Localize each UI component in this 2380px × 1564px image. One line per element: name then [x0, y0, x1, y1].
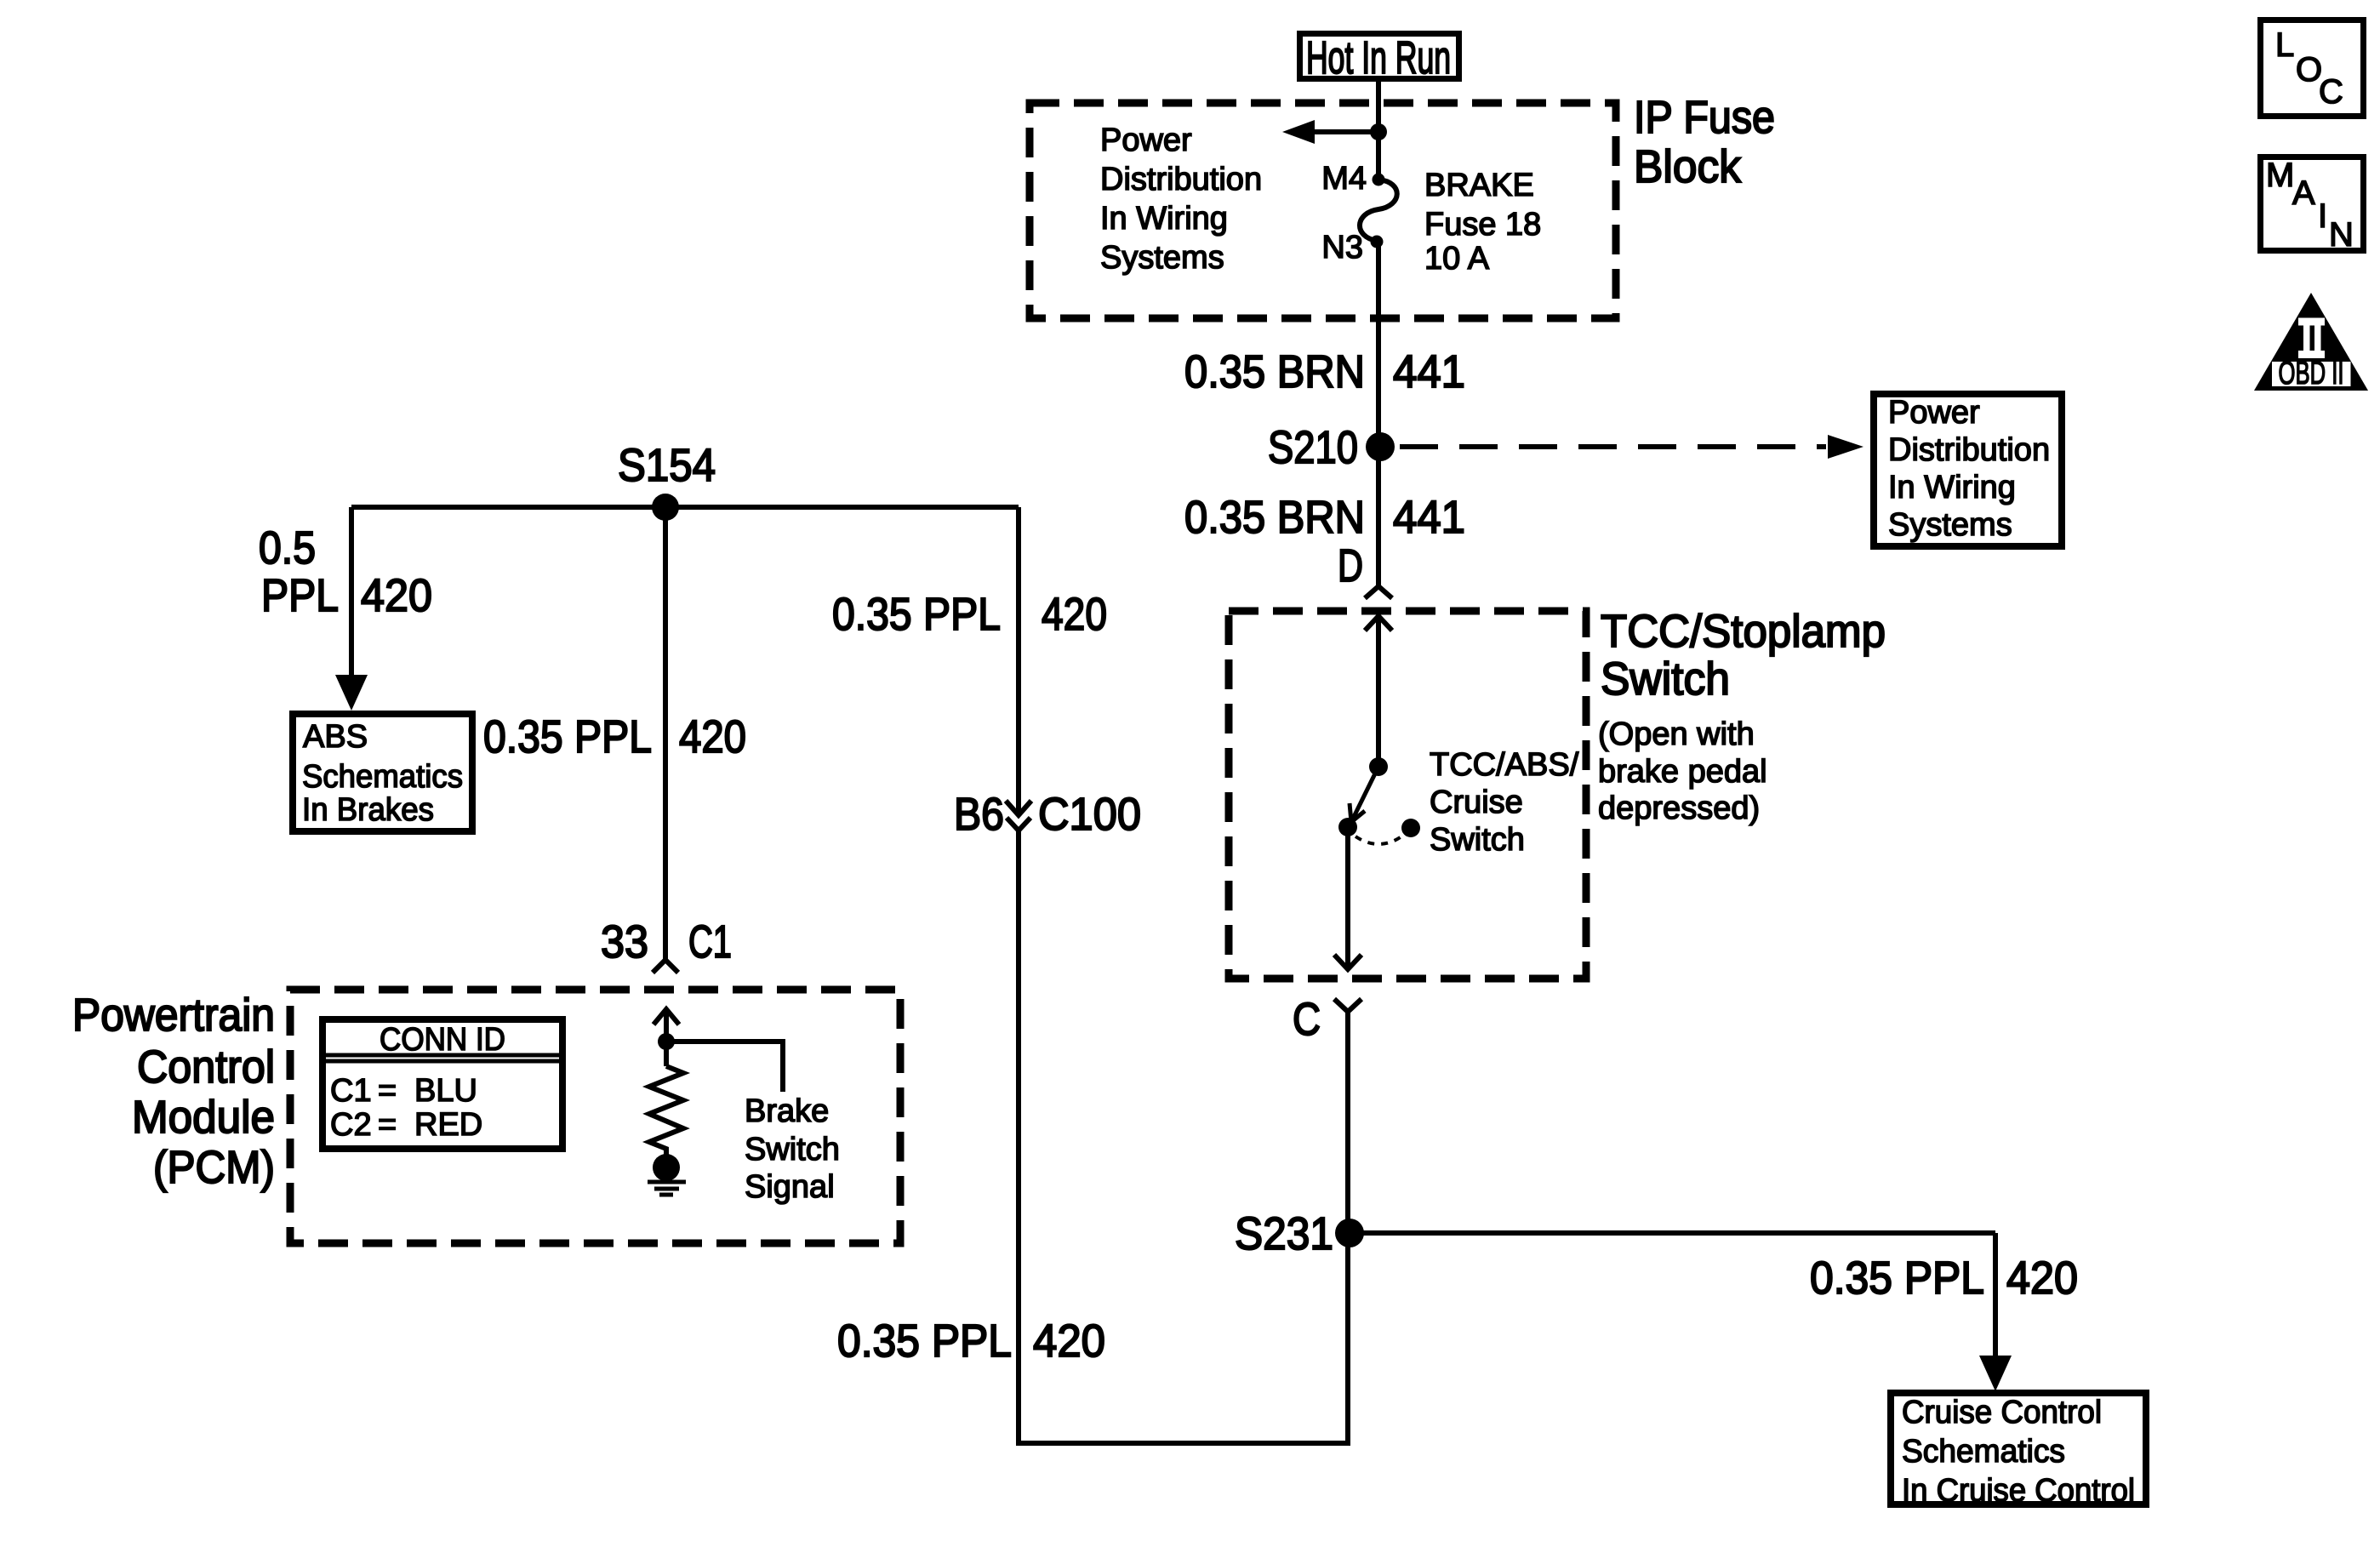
svg-text:420: 420 [2006, 1253, 2078, 1304]
svg-text:In Wiring: In Wiring [1888, 470, 2016, 505]
svg-text:420: 420 [361, 570, 432, 621]
svg-text:CONN ID: CONN ID [380, 1022, 505, 1058]
svg-text:=: = [378, 1073, 397, 1109]
svg-text:depressed): depressed) [1598, 791, 1760, 826]
svg-text:BRAKE: BRAKE [1424, 168, 1534, 203]
svg-text:Module: Module [132, 1092, 275, 1143]
svg-text:Signal: Signal [745, 1169, 835, 1205]
svg-text:N: N [2329, 216, 2354, 254]
svg-text:33: 33 [601, 916, 648, 968]
svg-text:C: C [2319, 73, 2343, 111]
svg-text:C100: C100 [1038, 789, 1141, 840]
svg-text:420: 420 [1033, 1316, 1105, 1367]
svg-text:In Wiring: In Wiring [1100, 201, 1228, 237]
svg-text:In Brakes: In Brakes [302, 792, 434, 828]
svg-text:10 A: 10 A [1424, 241, 1490, 277]
svg-text:Distribution: Distribution [1888, 432, 2050, 468]
svg-text:Schematics: Schematics [1902, 1434, 2065, 1470]
svg-text:C: C [1293, 994, 1321, 1045]
svg-text:0.35 PPL: 0.35 PPL [1810, 1253, 1984, 1304]
svg-text:=: = [378, 1107, 397, 1143]
svg-text:Schematics: Schematics [302, 759, 463, 795]
svg-text:L: L [2275, 26, 2294, 64]
svg-text:S210: S210 [1268, 422, 1358, 473]
svg-text:N3: N3 [1321, 230, 1363, 265]
svg-text:B6: B6 [954, 789, 1004, 840]
svg-text:IP Fuse: IP Fuse [1634, 92, 1775, 143]
svg-text:Powertrain: Powertrain [72, 990, 275, 1041]
svg-text:C1: C1 [330, 1073, 372, 1109]
svg-text:0.35 PPL: 0.35 PPL [837, 1316, 1012, 1367]
svg-text:C1: C1 [688, 916, 732, 968]
svg-text:Block: Block [1634, 141, 1742, 192]
svg-text:441: 441 [1393, 346, 1465, 397]
svg-text:Power: Power [1888, 395, 1980, 431]
svg-text:A: A [2292, 174, 2315, 212]
svg-text:Fuse 18: Fuse 18 [1424, 207, 1541, 243]
svg-text:C2: C2 [330, 1107, 372, 1143]
svg-text:S154: S154 [618, 440, 716, 491]
svg-text:brake pedal: brake pedal [1598, 754, 1767, 790]
svg-text:Power: Power [1100, 123, 1192, 158]
svg-text:M4: M4 [1321, 161, 1367, 197]
svg-text:Hot In Run: Hot In Run [1306, 32, 1451, 83]
svg-text:420: 420 [679, 711, 746, 762]
svg-text:Systems: Systems [1100, 240, 1224, 276]
svg-text:Cruise: Cruise [1430, 785, 1523, 820]
svg-text:0.35 BRN: 0.35 BRN [1184, 492, 1365, 543]
svg-text:Distribution: Distribution [1100, 162, 1262, 197]
svg-text:420: 420 [1042, 589, 1107, 640]
svg-text:Cruise Control: Cruise Control [1902, 1395, 2102, 1430]
svg-text:0.35 PPL: 0.35 PPL [832, 589, 1001, 640]
svg-text:S231: S231 [1235, 1208, 1333, 1259]
svg-text:0.5: 0.5 [259, 522, 316, 574]
svg-text:(Open with: (Open with [1598, 716, 1755, 752]
svg-text:D: D [1338, 540, 1363, 591]
svg-text:OBD II: OBD II [2279, 356, 2344, 391]
svg-text:TCC/ABS/: TCC/ABS/ [1430, 747, 1579, 783]
svg-text:Systems: Systems [1888, 507, 2012, 543]
svg-text:RED: RED [414, 1107, 482, 1143]
svg-text:Brake: Brake [745, 1093, 829, 1129]
svg-text:Switch: Switch [1430, 822, 1525, 858]
svg-text:In Cruise Control: In Cruise Control [1902, 1473, 2135, 1509]
svg-text:ABS: ABS [303, 719, 368, 755]
svg-text:0.35 PPL: 0.35 PPL [483, 711, 652, 762]
svg-text:441: 441 [1393, 492, 1465, 543]
svg-text:Switch: Switch [1601, 654, 1730, 705]
svg-text:PPL: PPL [261, 570, 339, 621]
svg-text:BLU: BLU [414, 1073, 477, 1109]
svg-text:0.35 BRN: 0.35 BRN [1184, 346, 1365, 397]
svg-text:(PCM): (PCM) [153, 1142, 275, 1193]
svg-text:Control: Control [137, 1042, 275, 1093]
svg-text:Switch: Switch [745, 1132, 840, 1167]
svg-text:I: I [2318, 197, 2327, 235]
svg-text:M: M [2266, 157, 2294, 194]
svg-text:TCC/Stoplamp: TCC/Stoplamp [1601, 606, 1886, 657]
